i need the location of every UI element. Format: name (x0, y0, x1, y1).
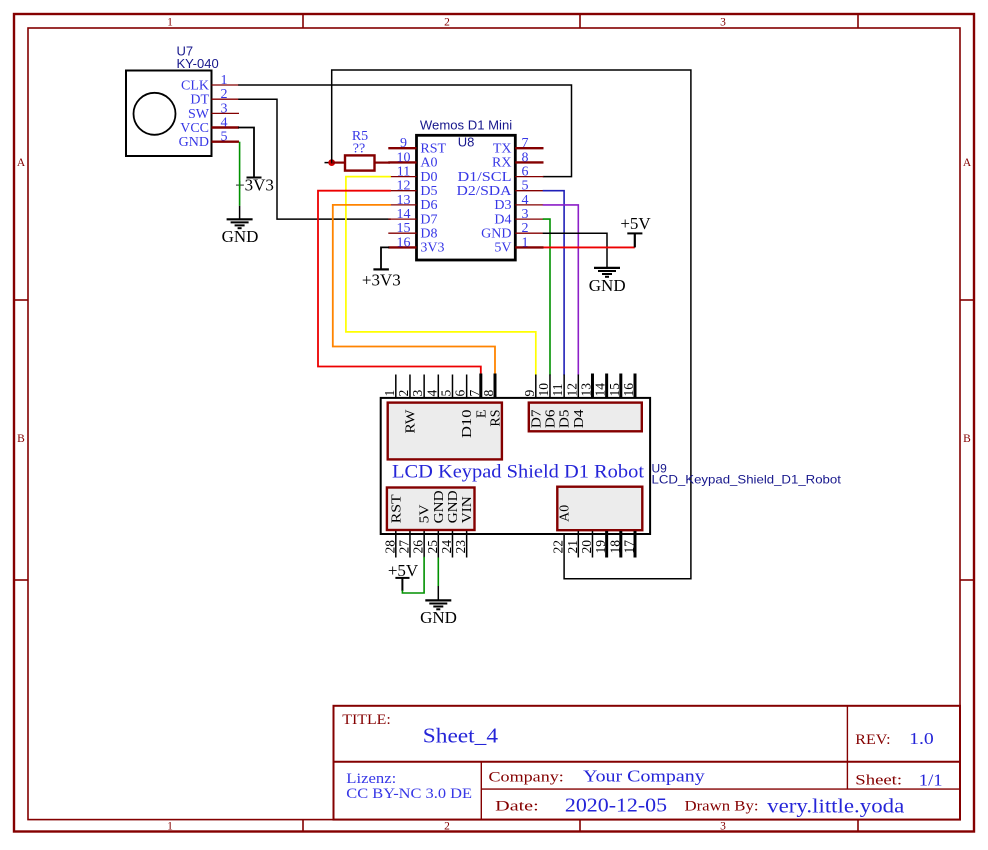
U8 pin 4 D3 stub right (515, 204, 543, 206)
svg-text:9: 9 (400, 136, 407, 151)
U9 pin 26 stub bottom (423, 531, 425, 558)
svg-text:D6: D6 (420, 198, 437, 213)
svg-text:3: 3 (410, 390, 425, 397)
svg-text:GND: GND (222, 227, 259, 246)
U7 pin 2 DT stub (212, 98, 240, 100)
title block horizontal divider upper (334, 761, 961, 763)
svg-text:14: 14 (397, 207, 411, 222)
svg-text:D2/SDA: D2/SDA (457, 184, 513, 199)
U8 pin 5 D2/SDA stub right (515, 190, 543, 192)
U9 pin 5 stub top (451, 375, 453, 398)
U7 pin 4 VCC stub (212, 126, 240, 128)
svg-text:4: 4 (221, 116, 228, 131)
wire green D4 net U8 pin3 to shield pin10 (544, 219, 551, 374)
svg-text:12: 12 (564, 383, 579, 397)
svg-text:Sheet_4: Sheet_4 (423, 723, 499, 747)
ground symbol at U8 (594, 267, 620, 269)
wire red 5V net from U8 pin1 to +5V (544, 246, 635, 248)
svg-text:1.0: 1.0 (909, 729, 934, 748)
svg-text:15: 15 (607, 383, 622, 397)
svg-text:B: B (17, 433, 25, 445)
svg-text:2: 2 (221, 87, 228, 102)
U7 pin 5 GND stub (212, 140, 240, 142)
svg-text:4: 4 (424, 390, 439, 397)
svg-text:28: 28 (382, 540, 397, 554)
svg-text:VIN: VIN (460, 496, 475, 523)
svg-text:RST: RST (420, 141, 446, 156)
wire black segment to ground at U9 (437, 586, 439, 600)
wire GND from U8 pin2 to ground (544, 233, 608, 268)
svg-text:16: 16 (397, 235, 411, 250)
svg-text:+3V3: +3V3 (235, 176, 274, 195)
svg-text:25: 25 (425, 540, 440, 554)
svg-text:GND: GND (589, 276, 626, 295)
svg-text:Lizenz:: Lizenz: (346, 771, 396, 787)
svg-text:21: 21 (565, 540, 580, 554)
svg-text:2: 2 (396, 390, 411, 397)
rotary encoder U7 body (126, 71, 212, 157)
svg-text:14: 14 (593, 383, 608, 397)
svg-text:5: 5 (522, 179, 529, 194)
wire green +5V to U9 pin26 (402, 558, 424, 594)
svg-text:CC BY-NC 3.0 DE: CC BY-NC 3.0 DE (346, 786, 472, 802)
svg-text:D10: D10 (460, 410, 475, 439)
svg-text:1: 1 (522, 235, 529, 250)
svg-text:+5V: +5V (620, 214, 651, 233)
svg-text:8: 8 (481, 390, 496, 397)
svg-text:9: 9 (522, 390, 537, 397)
U9 pin 3 stub top (423, 375, 425, 398)
power symbol +3V3 at U8 (373, 268, 389, 270)
svg-text:Sheet:: Sheet: (855, 773, 902, 789)
svg-text:KY-040: KY-040 (177, 56, 219, 71)
ground symbol at U7 (227, 218, 253, 220)
svg-text:Date:: Date: (495, 799, 539, 815)
U7 pin 1 CLK stub (212, 84, 240, 86)
wire green U9 pin25 to ground (437, 558, 439, 587)
svg-text:7: 7 (467, 390, 482, 397)
U9 pin 6 stub top (466, 375, 468, 398)
wire A0 net big loop junction to LCD shield pin22 (332, 70, 691, 579)
frame column tick top 1 (302, 14, 304, 28)
U8 pin 9 RST stub left (388, 147, 416, 149)
svg-text:19: 19 (593, 540, 608, 554)
svg-text:D6: D6 (543, 410, 558, 429)
U8 pin 16 3V3 stub left (388, 246, 416, 248)
U8 pin 2 GND stub right (515, 232, 543, 234)
svg-text:5: 5 (221, 130, 228, 145)
svg-text:Drawn By:: Drawn By: (685, 799, 759, 815)
U8 pin 15 D8 stub left (388, 232, 416, 234)
svg-text:U8: U8 (458, 135, 475, 150)
svg-text:18: 18 (607, 540, 622, 554)
frame row tick left 1 (14, 299, 28, 301)
svg-text:GND: GND (420, 608, 457, 627)
svg-text:3: 3 (221, 101, 228, 116)
U8 pin 8 RX stub right (515, 161, 543, 163)
resistor R5 right lead (375, 162, 391, 164)
svg-text:3: 3 (522, 207, 529, 222)
wire stub left of junction (325, 162, 332, 164)
title block vertical divider left (480, 762, 482, 820)
svg-text:A: A (963, 157, 972, 169)
svg-text:4: 4 (522, 193, 529, 208)
svg-text:2: 2 (444, 821, 450, 833)
U9 pin 1 stub top (395, 375, 397, 398)
U9 pin 11 stub top (563, 375, 565, 398)
power symbol +5V at U8 (634, 233, 636, 247)
svg-text:B: B (963, 433, 971, 445)
svg-text:D7: D7 (529, 410, 544, 429)
frame column tick top 2 (579, 14, 581, 28)
svg-text:GND: GND (432, 490, 447, 523)
svg-text:27: 27 (396, 540, 411, 554)
svg-text:E: E (474, 410, 489, 419)
svg-text:Company:: Company: (489, 769, 564, 785)
U9 pin 13 stub top (591, 374, 594, 398)
svg-text:D5: D5 (420, 184, 437, 199)
rotary encoder U7 knob circle (134, 93, 176, 135)
U9 pin 16 stub top (633, 374, 636, 398)
svg-text:13: 13 (397, 193, 411, 208)
resistor R5 body (345, 155, 375, 170)
frame row tick right 2 (960, 579, 974, 581)
svg-text:6: 6 (453, 390, 468, 397)
svg-text:1: 1 (221, 73, 228, 88)
svg-text:RX: RX (492, 156, 511, 171)
wire GND black segment to ground at U7 (239, 206, 241, 220)
svg-text:+3V3: +3V3 (362, 271, 401, 290)
U9 pin 20 stub bottom (591, 531, 593, 558)
title block outline (334, 706, 961, 820)
svg-text:D4: D4 (572, 410, 587, 429)
U9 pin 18 stub bottom (619, 531, 622, 558)
U9 pin 21 stub bottom (577, 531, 579, 558)
wire blue D2/SDA net U8 pin5 to shield pin11 (544, 191, 565, 375)
svg-text:26: 26 (411, 540, 426, 554)
svg-text:2: 2 (522, 221, 529, 236)
wire VCC from U7 pin4 to +3V3 symbol (239, 128, 254, 178)
title block horizontal divider lower (481, 788, 960, 790)
svg-text:23: 23 (453, 540, 468, 554)
U8 pin 7 TX stub right (515, 147, 543, 149)
svg-text:5V: 5V (494, 241, 511, 256)
U9 header block top left (388, 403, 502, 460)
svg-text:VCC: VCC (180, 121, 209, 136)
U9 pin 12 stub top (577, 375, 579, 398)
U9 pin 8 stub top (493, 374, 496, 398)
svg-text:GND: GND (179, 135, 209, 150)
svg-text:RS: RS (488, 410, 503, 427)
U8 pin 6 D1/SCL stub right (515, 176, 543, 178)
U9 header block top right (529, 403, 642, 432)
svg-text:1: 1 (167, 821, 173, 833)
U8 pin 13 D6 stub left (388, 204, 416, 206)
ground symbol at U9 (425, 599, 451, 601)
svg-text:16: 16 (621, 383, 636, 397)
svg-text:12: 12 (397, 179, 411, 194)
svg-text:RST: RST (389, 494, 404, 523)
svg-text:SW: SW (188, 107, 210, 122)
svg-text:LCD Keypad Shield D1 Robot: LCD Keypad Shield D1 Robot (392, 463, 645, 483)
svg-text:17: 17 (621, 540, 636, 554)
U9 pin 14 stub top (605, 374, 608, 398)
svg-text:5: 5 (438, 390, 453, 397)
U8 pin 10 A0 stub left (388, 161, 416, 163)
svg-text:24: 24 (439, 540, 454, 554)
svg-text:D8: D8 (420, 226, 437, 241)
frame column tick bottom 3 (857, 820, 859, 832)
frame column tick bottom 1 (302, 820, 304, 832)
LCD Keypad Shield U9 body (381, 398, 650, 534)
svg-text:13: 13 (578, 383, 593, 397)
U9 pin 9 stub top (535, 375, 537, 398)
U8 pin 12 D5 stub left (388, 190, 416, 192)
U9 pin 15 stub top (619, 374, 622, 398)
svg-text:2020-12-05: 2020-12-05 (565, 796, 667, 817)
svg-text:1: 1 (382, 390, 397, 397)
svg-text:10: 10 (397, 150, 411, 165)
frame column tick top 3 (857, 14, 859, 28)
wire GND green from U7 pin5 (239, 142, 241, 206)
wire yellow D0 net U8 pin11 to shield pin9 (346, 177, 536, 375)
svg-text:1: 1 (167, 17, 173, 29)
svg-text:1/1: 1/1 (919, 771, 943, 790)
U9 pin 4 stub top (437, 375, 439, 398)
U9 pin 25 stub bottom (437, 531, 439, 558)
U9 pin 28 stub bottom (395, 531, 397, 558)
U9 header block bottom left (387, 488, 475, 531)
frame row tick right 1 (960, 299, 974, 301)
U8 pin 1 5V stub right (515, 246, 543, 248)
resistor R5 left lead (332, 162, 345, 164)
svg-text:6: 6 (522, 165, 529, 180)
svg-text:22: 22 (551, 540, 566, 554)
U9 pin 24 stub bottom (451, 531, 453, 558)
power symbol +5V at U9 (395, 577, 409, 579)
U9 pin 23 stub bottom (466, 531, 468, 558)
svg-text:GND: GND (481, 226, 511, 241)
Wemos D1 Mini U8 body (417, 135, 516, 260)
svg-text:3V3: 3V3 (420, 241, 444, 256)
svg-text:7: 7 (522, 136, 529, 151)
svg-text:GND: GND (446, 490, 461, 523)
frame column tick bottom 2 (579, 820, 581, 832)
svg-text:8: 8 (522, 150, 529, 165)
U9 pin 19 stub bottom (605, 531, 608, 558)
U9 pin 17 stub bottom (633, 531, 636, 558)
svg-text:2: 2 (444, 17, 450, 29)
wire CLK net from U7 pin1 to U8 D1/SCL (239, 85, 572, 177)
svg-text:D0: D0 (420, 170, 437, 185)
svg-text:A: A (17, 157, 26, 169)
svg-text:3: 3 (720, 821, 726, 833)
power symbol +3V3 at U7 (247, 177, 262, 179)
svg-text:very.little.yoda: very.little.yoda (767, 797, 905, 818)
svg-text:RW: RW (403, 409, 418, 434)
U9 pin 2 stub top (409, 375, 411, 398)
svg-text:D3: D3 (494, 198, 511, 213)
svg-text:3: 3 (720, 17, 726, 29)
svg-text:DT: DT (190, 93, 209, 108)
wire red D5 net U8 pin12 to shield pin7 (318, 191, 481, 376)
frame row tick left 2 (14, 579, 28, 581)
svg-text:LCD_Keypad_Shield_D1_Robot: LCD_Keypad_Shield_D1_Robot (652, 473, 842, 487)
svg-text:15: 15 (397, 221, 411, 236)
U9 pin 27 stub bottom (409, 531, 411, 558)
wire purple D3 net U8 pin4 to shield pin12 (544, 205, 579, 375)
wire orange D6 net U8 pin13 to shield pin8 (333, 205, 495, 376)
svg-text:A0: A0 (420, 156, 437, 171)
svg-text:Wemos D1 Mini: Wemos D1 Mini (420, 118, 512, 133)
U9 pin 10 stub top (549, 375, 551, 398)
svg-text:A0: A0 (558, 505, 573, 522)
U9 header block bottom right (557, 487, 642, 531)
svg-text:5V: 5V (418, 505, 433, 524)
svg-text:11: 11 (550, 384, 565, 397)
svg-text:D7: D7 (420, 212, 437, 227)
U8 pin 14 D7 stub left (388, 218, 416, 220)
svg-text:11: 11 (397, 165, 410, 180)
svg-text:CLK: CLK (181, 78, 209, 93)
svg-text:D1/SCL: D1/SCL (458, 170, 512, 185)
U7 pin 3 SW stub (212, 112, 240, 114)
svg-text:D5: D5 (558, 410, 573, 429)
svg-text:REV:: REV: (855, 732, 890, 748)
svg-text:20: 20 (579, 540, 594, 554)
U8 pin 11 D0 stub left (388, 176, 416, 178)
svg-text:TITLE:: TITLE: (342, 712, 391, 728)
U8 pin 3 D4 stub right (515, 218, 543, 220)
junction dot at R5 left (328, 159, 335, 166)
svg-text:D4: D4 (494, 212, 511, 227)
wire 3V3 from U8 pin16 to +3V3 symbol (381, 247, 388, 269)
U9 pin 7 stub top (479, 374, 482, 398)
wire DT net from U7 pin2 to U8 D7 (239, 99, 390, 219)
title block vertical divider right (846, 706, 848, 789)
svg-text:10: 10 (536, 383, 551, 397)
svg-text:TX: TX (493, 141, 512, 156)
svg-text:??: ?? (353, 141, 365, 156)
svg-text:Your Company: Your Company (583, 766, 705, 785)
